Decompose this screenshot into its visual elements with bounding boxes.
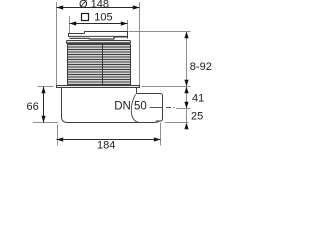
label square 105 [82, 14, 89, 21]
grate top raised profile [85, 32, 128, 34]
extension tick flange level left [38, 86, 54, 88]
extension tick body bottom left [33, 122, 58, 124]
dimension line square 105 [70, 23, 128, 25]
extension line left of grate (vertical) [69, 16, 71, 34]
extension line top surface to right dim [129, 31, 191, 33]
svg-text:105: 105 [94, 11, 112, 23]
bowl right wall upper [136, 88, 138, 94]
bowl outline [62, 88, 160, 123]
ribs right edge [130, 44, 132, 85]
grate frame rim left [69, 33, 85, 35]
extension line flange level right [142, 86, 191, 88]
extension line body-left down to 184 dim [57, 125, 59, 146]
svg-text:66: 66 [27, 101, 39, 113]
extension tick centerline right [176, 108, 190, 110]
grate seat stepped line [70, 37, 128, 39]
extension tick pipe bottom right [165, 122, 189, 124]
ribbed height adjustment block fill [68, 44, 131, 85]
svg-text:25: 25 [191, 111, 203, 123]
extension line left of flange (vertical) [56, 2, 58, 85]
grate frame bottom line [69, 35, 128, 37]
collar ring [67, 41, 131, 44]
extension line right of grate (vertical) [127, 20, 129, 32]
grate frame right edge [127, 31, 129, 39]
outlet pipe DN50 [137, 94, 163, 122]
dimension line diameter 148 [57, 7, 140, 9]
bowl to pipe transition curve [131, 94, 138, 122]
ribs horizontal lines [68, 45, 131, 85]
extension line right of flange (vertical) [139, 2, 141, 85]
svg-text:DN 50: DN 50 [114, 101, 147, 113]
collar inner line [67, 41, 130, 43]
dimension line 8-92 / 41 / 25 (vertical) [186, 32, 188, 123]
flange plate [57, 86, 140, 88]
ribs middle seam [102, 44, 104, 85]
svg-text:8-92: 8-92 [190, 61, 212, 73]
dimension line 184 [57, 139, 161, 141]
svg-text:184: 184 [97, 140, 115, 150]
dimension line 66 (vertical) [43, 87, 45, 123]
svg-text:Ø 148: Ø 148 [79, 0, 109, 11]
svg-text:41: 41 [192, 93, 204, 105]
extension line pipe-end down to 184 dim [160, 123, 162, 146]
centerline of pipe (dash-dot) [150, 107, 163, 109]
grate frame left edge [68, 33, 70, 37]
ribs left edge [67, 44, 69, 85]
